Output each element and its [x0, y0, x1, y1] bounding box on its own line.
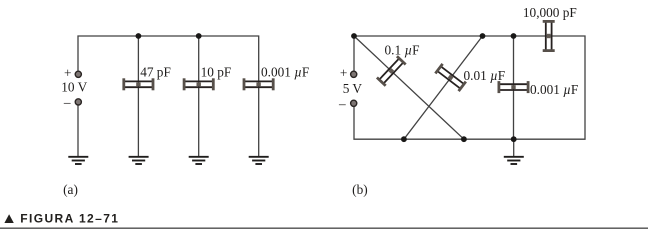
svg-text:5 V: 5 V — [343, 81, 363, 96]
svg-text:FIGURA 12–71: FIGURA 12–71 — [20, 211, 119, 225]
svg-text:(b): (b) — [352, 182, 368, 197]
svg-text:10 V: 10 V — [61, 80, 87, 95]
svg-text:–: – — [338, 96, 346, 111]
svg-text:0.001 µF: 0.001 µF — [530, 82, 578, 97]
svg-text:+: + — [64, 66, 72, 81]
svg-text:0.001 µF: 0.001 µF — [261, 64, 309, 79]
svg-text:+: + — [340, 66, 348, 81]
svg-text:–: – — [63, 94, 71, 109]
svg-text:(a): (a) — [63, 182, 78, 197]
svg-text:47 pF: 47 pF — [140, 64, 171, 79]
svg-text:0.01 µF: 0.01 µF — [464, 68, 506, 83]
svg-text:10 pF: 10 pF — [201, 64, 232, 79]
svg-text:0.1 µF: 0.1 µF — [385, 43, 420, 58]
svg-text:10,000 pF: 10,000 pF — [523, 5, 577, 20]
